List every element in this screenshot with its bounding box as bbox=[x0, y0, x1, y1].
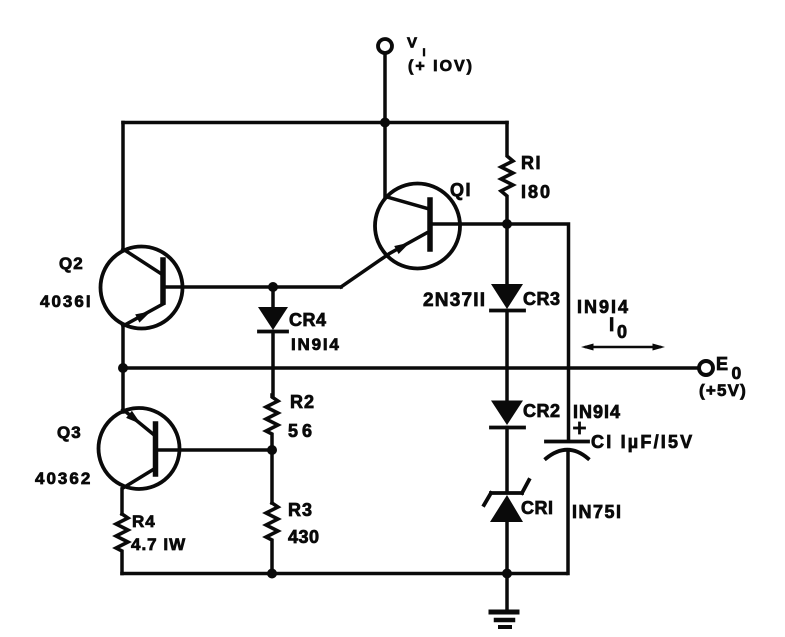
node bottom rail R3 bbox=[267, 569, 277, 579]
wire Q3 emitter from rail bbox=[121, 368, 125, 412]
plus sign C1 bbox=[575, 423, 585, 433]
wire R2-R3 bbox=[270, 450, 274, 503]
node CR4 top bbox=[268, 282, 278, 292]
diode CR4 bbox=[258, 287, 288, 397]
svg-text:CRI: CRI bbox=[521, 498, 554, 518]
svg-text:I80: I80 bbox=[521, 182, 552, 202]
svg-text:IN75I: IN75I bbox=[572, 502, 623, 522]
svg-text:CR4: CR4 bbox=[289, 310, 327, 330]
svg-text:(+ IOV): (+ IOV) bbox=[408, 58, 474, 75]
diode CR2 bbox=[491, 401, 524, 493]
svg-text:R4: R4 bbox=[132, 512, 156, 531]
terminal V1 bbox=[378, 39, 392, 53]
wire bottom rail bbox=[122, 572, 566, 576]
svg-text:QI: QI bbox=[450, 180, 472, 200]
wire top rail bbox=[123, 121, 507, 125]
resistor R1 bbox=[501, 123, 513, 225]
svg-text:0: 0 bbox=[617, 322, 627, 342]
resistor R3 bbox=[266, 503, 278, 574]
wire Q2 base to Q1 emitter bbox=[166, 285, 342, 289]
zener CR1 bbox=[484, 480, 529, 574]
wire Q1 base to C1 column corner bbox=[433, 224, 569, 440]
svg-text:CR2: CR2 bbox=[523, 401, 561, 421]
svg-text:4.7 IW: 4.7 IW bbox=[131, 535, 186, 554]
wire V1 to top rail bbox=[383, 54, 387, 123]
terminal E0 bbox=[699, 361, 713, 375]
svg-text:2N37II: 2N37II bbox=[423, 290, 486, 311]
svg-text:IN9I4: IN9I4 bbox=[573, 402, 621, 422]
svg-text:CR3: CR3 bbox=[523, 289, 561, 309]
svg-text:E: E bbox=[716, 354, 728, 374]
svg-text:Q2: Q2 bbox=[59, 254, 84, 273]
node top rail / V1 bbox=[380, 118, 390, 128]
resistor R2 bbox=[266, 395, 278, 450]
label E0 bbox=[716, 354, 742, 383]
label I0 bbox=[609, 315, 627, 342]
svg-text:I: I bbox=[609, 315, 614, 336]
label V1 bbox=[407, 35, 426, 60]
node R1 / Q1 base bbox=[502, 219, 512, 229]
ground bbox=[491, 574, 517, 628]
capacitor C1 bbox=[546, 442, 588, 574]
svg-text:4036I: 4036I bbox=[40, 292, 93, 311]
wire Q3 collector to R4 bbox=[120, 489, 124, 514]
node R2 / R3 / Q3 base bbox=[267, 445, 277, 455]
svg-text:IN9I4: IN9I4 bbox=[577, 297, 630, 317]
wire Q2 emitter down bbox=[121, 327, 125, 368]
svg-text:(+5V): (+5V) bbox=[699, 381, 747, 400]
svg-text:56: 56 bbox=[288, 421, 316, 441]
svg-text:40362: 40362 bbox=[35, 469, 92, 488]
svg-text:IN9I4: IN9I4 bbox=[291, 335, 341, 354]
node output rail left bbox=[118, 363, 128, 373]
svg-text:V: V bbox=[407, 35, 417, 52]
wire to Q1 collector bbox=[383, 123, 387, 198]
svg-text:R2: R2 bbox=[290, 392, 315, 412]
diode CR3 bbox=[491, 224, 524, 400]
node bottom rail ground bbox=[502, 569, 512, 579]
wire output rail to E0 bbox=[123, 366, 699, 370]
wire left vertical to Q2 collector bbox=[121, 123, 125, 251]
arrow I0 bbox=[581, 344, 665, 351]
svg-text:R3: R3 bbox=[288, 500, 313, 520]
svg-text:CI IµF/I5V: CI IµF/I5V bbox=[591, 432, 694, 452]
svg-text:0: 0 bbox=[732, 363, 742, 383]
transistor Q3 bbox=[99, 408, 180, 489]
resistor R4 bbox=[116, 514, 128, 574]
svg-text:RI: RI bbox=[521, 153, 542, 173]
svg-text:430: 430 bbox=[288, 527, 320, 547]
svg-text:Q3: Q3 bbox=[57, 423, 82, 442]
transistor Q1 bbox=[341, 184, 460, 288]
wire Q3 base bbox=[158, 448, 272, 452]
transistor Q2 bbox=[101, 247, 183, 329]
